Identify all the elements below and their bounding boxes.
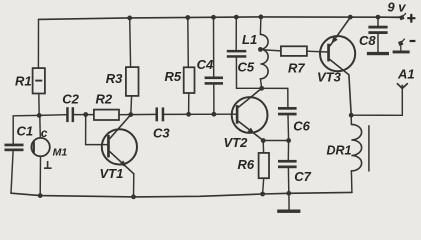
node C junction (R2/R3/VT1 collector/C3) bbox=[128, 112, 133, 117]
junction R5 base line bbox=[186, 112, 191, 117]
wire R2 to node C bbox=[119, 114, 131, 116]
svg-text:A1: A1 bbox=[397, 67, 415, 82]
wire top rail to C8 bbox=[377, 17, 379, 26]
label C1 bbox=[17, 123, 34, 138]
wire VT2 emitter node to node D bbox=[263, 140, 288, 142]
svg-text:C1: C1 bbox=[17, 123, 34, 138]
wire node A to M1 bbox=[39, 115, 42, 137]
svg-text:C8: C8 bbox=[359, 33, 376, 48]
resistor R2 bbox=[94, 110, 119, 120]
svg-text:VT2: VT2 bbox=[224, 135, 249, 150]
wire R6 to bottom rail bbox=[263, 178, 264, 194]
node B junction (C2/R2/VT1 base) bbox=[83, 112, 88, 117]
wire top rail to C4 bbox=[213, 17, 215, 76]
minus terminal pin bbox=[398, 39, 405, 51]
capacitor C5 bbox=[227, 50, 247, 58]
capacitor C2 bbox=[66, 107, 74, 122]
plus terminal pin bbox=[399, 13, 406, 20]
resistor R3 bbox=[126, 67, 139, 96]
resistor R6 bbox=[259, 153, 269, 178]
resistor R1 bbox=[33, 68, 45, 93]
wire C7 to bottom rail bbox=[287, 168, 289, 193]
label R1 bbox=[15, 74, 32, 89]
wire VT2 emitter to R6 bbox=[262, 141, 264, 153]
ground (minus terminal) bbox=[393, 51, 410, 54]
label C8 bbox=[359, 33, 376, 48]
wire R7 to VT3 base bbox=[307, 50, 327, 53]
wire L1 tap to R7 bbox=[260, 50, 281, 51]
wire top rail to R5 bbox=[187, 18, 190, 68]
label R3 bbox=[106, 71, 123, 86]
junction M1 bottom rail bbox=[38, 193, 43, 198]
wire top rail to C5 bbox=[235, 17, 237, 50]
wire top rail to R1 bbox=[37, 19, 39, 68]
wire C5 to tank bottom bbox=[236, 58, 261, 89]
wire node A to C1 bbox=[13, 115, 39, 143]
wire tank node to C6 bbox=[262, 88, 288, 107]
junction VT1 emitter bottom rail bbox=[131, 194, 136, 199]
svg-text:VT3: VT3 bbox=[317, 70, 342, 85]
svg-text:R3: R3 bbox=[106, 71, 123, 86]
label R5 bbox=[165, 69, 182, 84]
wire C4 to base line bbox=[213, 85, 215, 115]
node tank bottom (L1/C5/VT2 collector/C6) bbox=[259, 86, 264, 91]
svg-text:M1: M1 bbox=[53, 146, 68, 158]
svg-text:C3: C3 bbox=[153, 126, 170, 141]
node L1 tap bbox=[258, 47, 263, 52]
svg-text:R6: R6 bbox=[238, 157, 255, 172]
resistor R7 bbox=[281, 46, 307, 56]
wire C8 to ground bbox=[377, 34, 379, 52]
node A junction (R1/C1/M1/C2) bbox=[37, 113, 42, 118]
transistor VT2 bbox=[232, 88, 268, 140]
capacitor C8 bbox=[368, 26, 387, 34]
svg-text:C7: C7 bbox=[294, 169, 311, 184]
node VT2 emitter (R6/C6-C7 link) bbox=[261, 138, 266, 143]
junction top rail C4 bbox=[211, 15, 216, 20]
wire R1 to node A bbox=[38, 94, 40, 116]
svg-text:c: c bbox=[41, 126, 48, 140]
microphone M1 bbox=[31, 138, 49, 156]
capacitor C4 bbox=[205, 77, 223, 85]
wire C3 to VT2 base bbox=[164, 113, 236, 115]
junction C7 bottom rail bbox=[286, 191, 291, 196]
inductor DR1 (choke) bbox=[351, 124, 369, 171]
svg-text:R7: R7 bbox=[288, 60, 305, 75]
label C6 bbox=[293, 118, 310, 133]
inductor L1 bbox=[260, 34, 268, 78]
plus sign bbox=[407, 14, 415, 23]
svg-text:C4: C4 bbox=[197, 57, 214, 72]
ground (C8) bbox=[367, 52, 389, 55]
svg-text:C6: C6 bbox=[293, 118, 310, 133]
junction top rail R3 bbox=[127, 16, 132, 21]
label 9 v supply bbox=[387, 0, 406, 15]
wire node E to DR1 bbox=[350, 115, 352, 124]
transistor VT1 bbox=[102, 115, 137, 174]
label A1 bbox=[397, 67, 415, 82]
label VT1 bbox=[100, 166, 124, 181]
label R6 bbox=[238, 157, 255, 172]
svg-text:R2: R2 bbox=[96, 92, 113, 107]
minus sign bbox=[410, 40, 416, 42]
wire bottom common rail bbox=[11, 192, 352, 197]
wire M1 to bottom rail bbox=[39, 156, 41, 195]
wire C6 to node D bbox=[287, 115, 290, 140]
wire DR1 to bottom rail bbox=[350, 171, 353, 193]
label L1 bbox=[242, 32, 257, 47]
wire C1 to bottom rail bbox=[11, 151, 13, 193]
node E junction (VT3 collector/DR1/antenna) bbox=[349, 113, 354, 118]
wire node D to C7 bbox=[287, 141, 289, 160]
wire R5 to base line bbox=[188, 93, 190, 114]
svg-text:R1: R1 bbox=[15, 74, 32, 89]
wire VT1 emitter to bottom rail bbox=[133, 174, 135, 197]
label c (mic marking) bbox=[41, 126, 48, 140]
svg-text:C2: C2 bbox=[62, 92, 79, 107]
junction R6 bottom rail bbox=[260, 192, 265, 197]
wire top rail to plus terminal bbox=[378, 16, 400, 18]
junction C4 base line bbox=[212, 112, 217, 117]
capacitor C3 bbox=[156, 107, 165, 121]
wire C2 to node B bbox=[74, 114, 94, 116]
label VT2 bbox=[224, 135, 249, 150]
wire node B to VT1 base bbox=[86, 115, 108, 145]
junction top rail C8 bbox=[376, 15, 381, 20]
wire node C to C3 bbox=[131, 113, 156, 115]
wire node E to antenna bbox=[351, 88, 402, 115]
junction top rail VT3 emitter bbox=[348, 15, 353, 20]
wire top supply rail (+9V) bbox=[39, 17, 401, 20]
wire top rail to R3 bbox=[129, 18, 132, 67]
svg-text:L1: L1 bbox=[242, 32, 257, 47]
svg-text:DR1: DR1 bbox=[327, 144, 352, 158]
wire L1 bottom to tank node bbox=[260, 79, 261, 89]
label R7 bbox=[288, 60, 305, 75]
junction top rail L1 bbox=[259, 15, 264, 20]
transistor VT3 (PNP) bbox=[320, 17, 355, 115]
label R2 bbox=[96, 92, 113, 107]
mic ground marking bbox=[44, 161, 52, 168]
junction top rail R5 bbox=[185, 15, 190, 20]
svg-text:R5: R5 bbox=[165, 69, 182, 84]
ground (bottom rail) bbox=[277, 193, 300, 213]
antenna A1 bbox=[397, 83, 408, 88]
svg-text:VT1: VT1 bbox=[100, 166, 124, 181]
label VT3 bbox=[317, 70, 342, 85]
wire node A to C2 bbox=[39, 114, 66, 117]
label C3 bbox=[153, 126, 170, 141]
label C2 bbox=[62, 92, 79, 107]
capacitor C1 bbox=[5, 144, 24, 152]
svg-text:C5: C5 bbox=[238, 59, 255, 74]
label M1 bbox=[53, 146, 68, 158]
label C4 bbox=[197, 57, 214, 72]
label C7 bbox=[294, 169, 311, 184]
capacitor C7 bbox=[278, 160, 297, 168]
label DR1 bbox=[327, 144, 352, 158]
wire R3 to node C bbox=[130, 96, 133, 115]
wire top rail to L1 bbox=[259, 17, 262, 35]
resistor R5 bbox=[184, 67, 195, 93]
node D junction (C6/C7/emitter link) bbox=[286, 138, 291, 143]
capacitor C6 bbox=[278, 107, 297, 115]
svg-text:9 v: 9 v bbox=[387, 0, 406, 15]
junction top rail C5 bbox=[234, 15, 239, 20]
label C5 bbox=[238, 59, 255, 74]
